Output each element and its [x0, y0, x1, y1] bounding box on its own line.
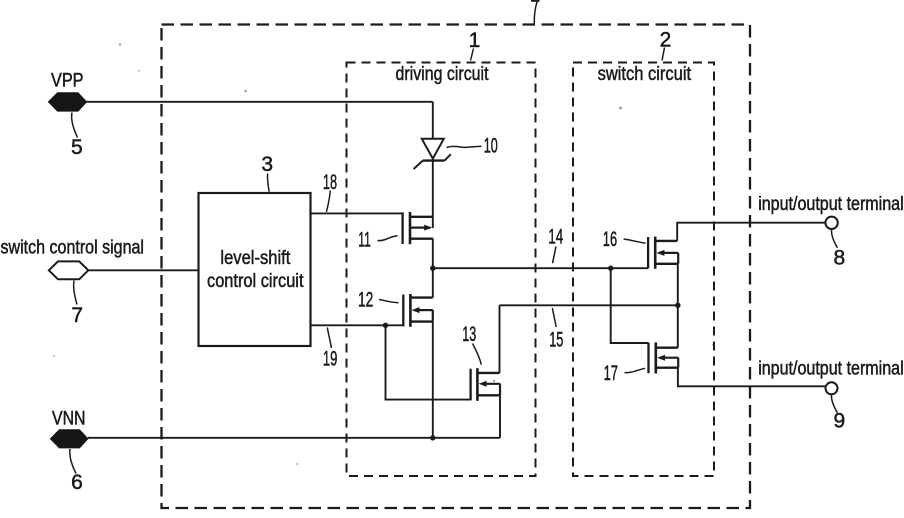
svg-text:switch control signal: switch control signal	[1, 238, 145, 259]
junction on wire 19	[383, 323, 388, 328]
transistor 11 (MOSFET)	[403, 212, 434, 244]
svg-text:input/output terminal: input/output terminal	[758, 359, 904, 380]
junction wire 14 / gate 17 branch	[608, 266, 613, 271]
svg-text:16: 16	[603, 228, 617, 251]
svg-text:7: 7	[71, 304, 83, 327]
label 14	[548, 225, 563, 263]
svg-text:12: 12	[358, 288, 373, 311]
svg-text:11: 11	[358, 229, 371, 252]
label 3	[261, 153, 273, 192]
svg-text:10: 10	[484, 135, 498, 158]
scan specks	[53, 43, 714, 465]
svg-text:19: 19	[323, 347, 338, 370]
junction wire 15 / switch rail	[675, 303, 681, 309]
rail T11 source down to T12 drain	[432, 239, 434, 298]
label 7 (top, partially cut)	[531, 1, 540, 24]
drain rail of 13 up to wire 15	[499, 305, 501, 373]
wire 14	[433, 267, 648, 269]
outer dashed box (semiconductor device 7)	[162, 25, 751, 509]
svg-text:driving circuit: driving circuit	[396, 64, 490, 85]
label 19	[323, 328, 338, 371]
label 10	[447, 135, 498, 158]
rail zener to T11 body	[432, 159, 434, 228]
transistor 17 (MOSFET)	[649, 342, 679, 373]
svg-text:18: 18	[323, 171, 337, 194]
wire control signal to level-shift box	[88, 269, 198, 271]
svg-text:6: 6	[71, 471, 83, 494]
drain rail of 16 up and to terminal 8	[677, 223, 825, 241]
source rail of 13 down to VNN	[499, 395, 501, 438]
svg-text:switch circuit: switch circuit	[598, 64, 692, 85]
label 13	[462, 323, 481, 365]
svg-text:VNN: VNN	[52, 408, 86, 429]
svg-text:9: 9	[833, 409, 845, 432]
svg-text:control circuit: control circuit	[207, 271, 304, 292]
transistor 16 (MOSFET)	[648, 237, 678, 269]
label 2	[660, 29, 672, 61]
transistor 12 (MOSFET)	[403, 294, 433, 327]
wire VPP to zener rail	[87, 101, 433, 103]
driving circuit dashed box 1	[347, 63, 536, 477]
wire to gate of 17	[611, 268, 649, 343]
label 11	[358, 229, 397, 252]
wire 19	[311, 324, 404, 326]
svg-text:5: 5	[71, 136, 83, 159]
wire from node 19 to gate of 13	[386, 325, 471, 399]
svg-text:8: 8	[833, 246, 845, 269]
label 17	[604, 362, 645, 385]
switch control signal terminal 7 (open hexagon)	[1, 238, 145, 327]
svg-text:14: 14	[548, 225, 563, 248]
svg-text:3: 3	[261, 153, 273, 176]
node on wire 14 at rail	[430, 266, 435, 271]
label 15	[549, 308, 563, 352]
svg-text:13: 13	[462, 323, 476, 346]
source rail of 16 down to drain of 17	[677, 264, 679, 348]
wire 15	[500, 304, 678, 306]
input/output terminal 9	[758, 359, 904, 433]
zener diode 10	[414, 102, 451, 169]
wire 18	[311, 212, 403, 214]
svg-text:VPP: VPP	[51, 71, 84, 92]
label 18	[323, 171, 337, 212]
level-shift control circuit box 3	[199, 193, 311, 346]
svg-text:input/output terminal: input/output terminal	[758, 194, 904, 215]
VPP terminal 5 (filled hexagon)	[49, 71, 87, 159]
svg-text:1: 1	[469, 29, 481, 52]
label 12	[358, 288, 399, 311]
input/output terminal 8	[758, 194, 904, 269]
VNN terminal 6 (filled hexagon)	[50, 408, 88, 494]
svg-text:level-shift: level-shift	[220, 248, 291, 269]
junction on VNN wire	[430, 435, 435, 440]
svg-text:15: 15	[549, 329, 563, 352]
transistor 13 (MOSFET)	[471, 368, 501, 401]
label 1	[469, 29, 481, 61]
svg-text:17: 17	[604, 362, 618, 385]
wire VNN rail	[88, 437, 500, 439]
switch circuit dashed box 2	[573, 63, 714, 477]
source rail of 17 to terminal 9	[678, 368, 826, 387]
svg-text:2: 2	[660, 29, 672, 52]
rail T12 source to VNN	[432, 322, 434, 438]
label 16	[603, 228, 646, 251]
